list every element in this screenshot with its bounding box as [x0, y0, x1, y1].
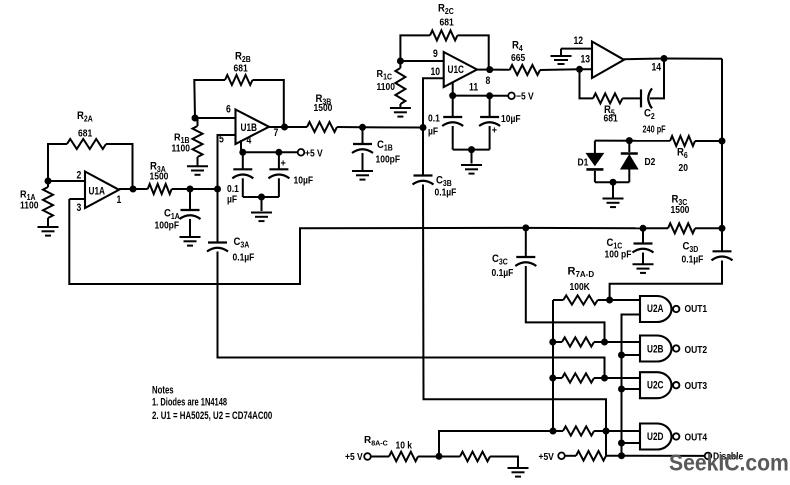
op-amp U1C	[444, 52, 477, 87]
node C1C tap	[640, 225, 647, 232]
label 10uF (U1C cap)	[501, 113, 521, 124]
NAND gate U2C	[640, 372, 679, 398]
wire U1D pin 12	[561, 48, 592, 50]
wire D1 anode stem	[594, 141, 596, 154]
watermark SeekIC.com	[669, 450, 789, 476]
label C1C	[607, 237, 623, 250]
net A: to R3C	[643, 227, 668, 229]
wire C1B to ground	[362, 153, 364, 170]
label R2A	[77, 110, 93, 123]
node 10uF top (U1C)	[486, 92, 493, 99]
net B: C3A to row3	[218, 252, 605, 379]
wire enable to Disable terminal	[622, 455, 705, 457]
wire output to R4	[490, 69, 510, 71]
node U1A pin2 junction	[45, 178, 52, 185]
svg-text:10µF: 10µF	[501, 113, 521, 124]
label R5	[604, 104, 615, 117]
wire U1C pin 11 stem	[452, 83, 454, 96]
op-amp U1A	[85, 172, 119, 209]
svg-text:D1: D1	[578, 157, 589, 168]
label R2C	[438, 3, 454, 16]
U1D pin 12 number	[574, 35, 584, 47]
wire -5V rail	[453, 95, 509, 97]
svg-text:U2C: U2C	[647, 380, 664, 392]
value 1500 (R3C)	[671, 204, 690, 215]
svg-text:1. Diodes are 1N4148: 1. Diodes are 1N4148	[152, 396, 227, 408]
label R4	[512, 40, 524, 53]
label +5 V (bottom left)	[345, 451, 363, 462]
wire C1A to ground	[189, 219, 191, 236]
wire R2A to U1A output	[106, 144, 133, 189]
resistor R1A	[43, 187, 53, 218]
value 100pF (C1B)	[376, 154, 401, 165]
svg-text:0.1µF: 0.1µF	[233, 252, 255, 263]
node row1 right (U2A in1)	[606, 297, 613, 304]
node enable junction	[618, 452, 625, 459]
svg-text:OUT3: OUT3	[685, 380, 708, 391]
svg-text:1500: 1500	[671, 204, 690, 215]
value 1100 (R1C)	[377, 81, 395, 92]
label C3B	[436, 175, 452, 188]
terminal Disable	[705, 453, 712, 460]
wire R4 to U1D pin 13	[540, 68, 592, 71]
wire bypass ground rail	[243, 196, 279, 198]
ground R1C	[390, 108, 411, 117]
svg-text:8: 8	[486, 75, 491, 87]
wire node to U1A pin 2	[48, 180, 85, 182]
value 0.1uF (C3A)	[233, 252, 255, 263]
wire 10uF bottom (U1C)	[489, 126, 491, 150]
label C3A	[234, 236, 250, 249]
svg-text:0.1: 0.1	[227, 183, 239, 194]
op-amp U1B	[236, 110, 270, 145]
node bypass ground (U1C)	[468, 146, 475, 153]
svg-text:100K: 100K	[570, 281, 591, 292]
wire R1A bottom lead	[47, 218, 49, 226]
wire U2A in1 stub	[610, 299, 640, 301]
node U1B output	[281, 124, 288, 131]
capacitor 0.1uF (U1C)	[442, 117, 463, 126]
svg-text:µF: µF	[428, 126, 438, 137]
ground C1C	[633, 264, 654, 273]
wire U2B in1 stub	[605, 341, 641, 343]
NAND gate U2A	[640, 296, 679, 322]
svg-text:100pF: 100pF	[155, 220, 180, 231]
wire row4 to bottom rail	[605, 431, 607, 456]
label OUT1	[685, 304, 708, 315]
wire U2D in2 stub	[622, 442, 641, 444]
svg-text:+: +	[492, 125, 498, 137]
terminal +5V bottom middle	[558, 453, 565, 460]
svg-text:11: 11	[469, 82, 479, 94]
wire diode bottom rail	[595, 181, 629, 183]
label plus (10uF U1B)	[281, 158, 287, 170]
label R8A-C	[364, 435, 389, 448]
svg-text:4: 4	[247, 135, 252, 147]
U1B pin 7 number	[274, 127, 279, 139]
ground C1A	[180, 237, 201, 246]
wire U2C in2 stub	[622, 388, 641, 390]
svg-text:Notes: Notes	[152, 383, 174, 396]
net A: to C1C tap	[526, 227, 643, 229]
capacitor C1C	[633, 244, 654, 253]
wire R2B feedback loop	[194, 80, 225, 118]
capacitor 10uF (U1B)	[268, 169, 289, 178]
svg-text:0.1µF: 0.1µF	[435, 187, 457, 198]
svg-text:240 pF: 240 pF	[643, 123, 667, 134]
U1B pin 6 number	[226, 103, 231, 115]
capacitor 0.1uF (U1B)	[232, 169, 253, 178]
svg-text:12: 12	[574, 35, 584, 47]
value 665 (R4)	[511, 52, 525, 63]
node U1A output	[130, 186, 137, 193]
svg-text:U1A: U1A	[89, 185, 106, 197]
wire bypass ground rail (U1C)	[453, 149, 490, 151]
diode D2	[621, 154, 638, 170]
capacitor C1B	[352, 144, 373, 153]
node U1C pin9 junction	[397, 58, 404, 65]
resistor R7C	[562, 373, 594, 382]
svg-text:10 k: 10 k	[396, 440, 413, 451]
wire R7D left lead	[553, 430, 563, 432]
resistor R2C	[430, 30, 457, 40]
svg-text:+: +	[281, 158, 287, 170]
resistor R3C	[668, 223, 695, 233]
wire R1B top lead	[195, 118, 198, 126]
wire U1A output to node	[119, 188, 133, 190]
wire bypass rail to +5V	[243, 151, 298, 153]
label R1C	[377, 68, 393, 81]
node pin11 junction	[449, 92, 456, 99]
net A: R3C to right vertical	[695, 227, 722, 229]
wire U2C in1 stub	[605, 377, 641, 379]
NAND gate U2D	[640, 424, 679, 450]
label R1A	[20, 189, 36, 202]
ground C1B	[352, 171, 373, 180]
label C3D	[683, 241, 699, 254]
value 681 (R2B)	[234, 63, 248, 74]
wire R1C top lead	[399, 61, 401, 68]
svg-text:D2: D2	[645, 156, 656, 167]
net C: C3B stem	[422, 128, 424, 176]
wire R2A feedback loop	[48, 144, 67, 181]
label -5 V	[516, 91, 534, 102]
node row3 left	[549, 375, 556, 382]
svg-text:U2A: U2A	[647, 303, 664, 315]
node U2B in2 tap	[618, 352, 625, 359]
ground U1C bypass	[461, 165, 482, 174]
capacitor 10uF (U1C)	[479, 117, 500, 126]
ground U1B bypass	[251, 213, 272, 222]
svg-text:665: 665	[511, 52, 525, 63]
ground bias resistor	[508, 468, 529, 477]
wire R1C bottom lead	[399, 104, 401, 107]
label OUT3	[685, 380, 708, 391]
wire R1B bottom lead	[197, 157, 199, 166]
wire R3A to C1A node	[172, 188, 190, 190]
wire R2C to U1C output	[457, 35, 488, 69]
svg-text:1500: 1500	[314, 102, 333, 113]
svg-text:0.1µF: 0.1µF	[492, 267, 514, 278]
terminal +5V (U1B)	[298, 149, 305, 156]
wire vertical R6 to R3C	[721, 141, 723, 228]
resistor R7A	[563, 295, 597, 304]
node U2D in2 tap	[618, 440, 625, 447]
value 100K (R7)	[570, 281, 591, 292]
svg-text:10: 10	[431, 66, 441, 78]
wire bias resistor to ground	[490, 457, 518, 468]
value 1100 (R1B)	[172, 143, 190, 154]
wire R7B left lead	[553, 341, 562, 343]
capacitor C2	[641, 88, 652, 108]
label R3C	[672, 194, 688, 207]
svg-text:OUT2: OUT2	[685, 344, 708, 355]
capacitor C3C	[515, 257, 536, 266]
resistor R2B	[225, 75, 253, 85]
node pin4 bypass junction	[239, 149, 246, 156]
svg-text:100pF: 100pF	[376, 154, 401, 165]
label OUT2	[685, 344, 708, 355]
wire +5V to R8 enable	[565, 455, 576, 457]
node R6 right	[719, 138, 726, 145]
U1C pin 11 number	[469, 82, 479, 94]
node row2 right (U2B in1)	[601, 339, 608, 346]
wire diode gnd stem	[612, 182, 614, 197]
svg-text:100 pF: 100 pF	[605, 249, 632, 260]
U1D pin 14 number	[652, 62, 662, 74]
wire 0.1uF stem	[242, 152, 244, 169]
wire node to bias resistor	[439, 456, 460, 458]
svg-text:1: 1	[117, 194, 122, 206]
wire U1B output to node	[269, 126, 285, 128]
capacitor C3D	[712, 251, 733, 260]
diode D1	[586, 153, 603, 169]
U1A pin 1 number	[117, 194, 122, 206]
svg-text:2. U1 = HA5025, U2 = CD74AC00: 2. U1 = HA5025, U2 = CD74AC00	[152, 410, 272, 423]
value 1100 (R1A)	[20, 200, 38, 211]
svg-text:681: 681	[604, 113, 618, 124]
wire U1A pin 3	[69, 198, 85, 200]
wire D1 cathode stem	[594, 171, 596, 182]
wire enable column	[622, 315, 641, 456]
node row3 right (U2C in1)	[601, 375, 608, 382]
wire diode rail	[595, 140, 670, 142]
wire R8A-C to node	[418, 456, 439, 458]
node C1A tap	[187, 186, 194, 193]
label R2B	[235, 51, 251, 64]
wire R7C right lead	[594, 377, 605, 379]
label uF (U1C cap)	[428, 126, 438, 137]
svg-text:U1C: U1C	[448, 64, 465, 76]
svg-text:3: 3	[77, 202, 82, 214]
label R3B	[316, 93, 332, 106]
ground R1A	[38, 227, 59, 236]
note line 2	[152, 410, 272, 423]
svg-text:2: 2	[77, 169, 82, 181]
node D2 top	[626, 137, 633, 144]
wire D2 cathode stem	[628, 141, 630, 152]
label R3A	[150, 161, 166, 174]
svg-text:681: 681	[234, 63, 248, 74]
wire pin12 gnd stem	[560, 49, 562, 55]
label OUT4	[685, 432, 708, 443]
net C: C3B to row4	[423, 185, 606, 432]
label C1A	[164, 208, 180, 221]
label C3C	[492, 253, 508, 266]
wire U1C pin 10	[423, 78, 444, 127]
resistor R5	[593, 93, 622, 103]
net A: U1A pin3 loop	[69, 199, 526, 284]
U1B pin 5 number	[219, 134, 224, 146]
U1D pin 13 number	[581, 54, 591, 66]
capacitor C1A	[180, 210, 201, 219]
wire output right vertical	[721, 59, 723, 141]
resistor R7B	[562, 337, 594, 346]
svg-text:SeekIC.com: SeekIC.com	[669, 450, 789, 476]
wire R7A right lead	[598, 299, 610, 301]
label plus (10uF U1C)	[492, 125, 498, 137]
wire bypass gnd stem (U1C)	[471, 150, 473, 164]
wire 0.1uF bottom	[242, 178, 244, 197]
svg-text:7: 7	[274, 127, 279, 139]
net D: C3C stem	[525, 228, 527, 257]
label C2	[644, 108, 655, 121]
wire 10uF bottom	[278, 178, 280, 197]
NAND gate U2B	[640, 336, 679, 362]
label uF (U1B cap)	[227, 194, 237, 205]
label R7A-D	[568, 266, 595, 280]
svg-text:0.1µF: 0.1µF	[682, 254, 704, 265]
svg-text:U2D: U2D	[647, 431, 664, 443]
U1C pin 10 number	[431, 66, 441, 78]
op-amp U1D	[592, 42, 624, 79]
label R6	[677, 147, 688, 160]
ground R1B	[187, 166, 208, 175]
value 10 k (R8A-C)	[396, 440, 413, 451]
svg-text:14: 14	[652, 62, 662, 74]
label Disable	[713, 451, 743, 462]
wire U2B in2 stub	[622, 354, 641, 356]
wire C3D to corner	[610, 261, 722, 301]
svg-text:µF: µF	[227, 194, 237, 205]
svg-text:1100: 1100	[377, 81, 395, 92]
wire +5V to R8A-C	[371, 456, 389, 458]
wire R7C left lead	[553, 377, 562, 379]
svg-text:+5 V: +5 V	[305, 148, 323, 159]
wire U1D output	[624, 58, 722, 61]
U1C pin 8 number	[486, 75, 491, 87]
wire R3B to C1B node	[337, 126, 363, 128]
resistor R8 enable	[576, 451, 606, 461]
svg-text:−5 V: −5 V	[516, 91, 534, 102]
wire output to R3B	[285, 126, 308, 128]
resistor R7D	[563, 426, 594, 435]
wire R5 to C2	[622, 97, 641, 99]
label D2	[645, 156, 656, 167]
wire node to U1B pin 6	[195, 117, 236, 119]
svg-text:6: 6	[226, 103, 231, 115]
svg-text:13: 13	[581, 54, 591, 66]
node diode ground	[610, 179, 617, 186]
svg-text:1100: 1100	[172, 143, 190, 154]
wire C2 to output	[650, 59, 664, 99]
value 681 (R2C)	[440, 17, 454, 28]
label 10uF (U1B cap)	[294, 175, 314, 186]
resistor R6	[670, 136, 695, 146]
value 0.1uF (C3D)	[682, 254, 704, 265]
node row2 left	[549, 339, 556, 346]
note line 1	[152, 396, 227, 408]
value 240 pF (C2)	[643, 123, 667, 134]
wire 10uF stem	[278, 152, 280, 169]
wire R2C feedback loop	[400, 35, 430, 61]
label C1B	[377, 139, 393, 152]
U1B pin 4 number	[247, 135, 252, 147]
node 10uF top	[275, 149, 282, 156]
value 0.1uF (C3B)	[435, 187, 457, 198]
node U1C output	[486, 66, 493, 73]
wire U1B pin 5	[218, 135, 236, 189]
node row4 left	[550, 428, 557, 435]
label 0.1 (U1B cap)	[227, 183, 239, 194]
svg-text:1500: 1500	[150, 171, 169, 182]
svg-text:20: 20	[679, 162, 688, 173]
resistor R8A-C	[389, 452, 418, 462]
terminal -5V	[508, 93, 515, 100]
node C1B tap	[359, 124, 366, 131]
wire R2B to U1B output	[253, 80, 284, 127]
svg-text:681: 681	[440, 17, 454, 28]
wire R3C node to C3D	[721, 228, 723, 251]
svg-text:+5 V: +5 V	[345, 451, 363, 462]
wire R1A to ground	[47, 181, 49, 187]
wire 0.1uF stem (U1C)	[452, 96, 454, 117]
ground U1D pin 12	[551, 56, 572, 64]
wire U2D in1 stub	[606, 430, 640, 432]
wire U1B pin 4 stem	[240, 140, 242, 152]
wire bias node up to row4	[439, 431, 553, 456]
value 20 (R6)	[679, 162, 688, 173]
node C2 feedback tap	[661, 55, 668, 62]
svg-text:10µF: 10µF	[294, 175, 314, 186]
node pin10/C3B junction	[420, 124, 427, 131]
label +5V (bottom middle)	[539, 451, 555, 462]
node row4 right (U2D in1)	[603, 428, 610, 435]
svg-text:OUT4: OUT4	[685, 432, 708, 443]
svg-text:+5V: +5V	[539, 451, 555, 462]
svg-text:681: 681	[78, 128, 92, 139]
svg-text:OUT1: OUT1	[685, 304, 708, 315]
net B: C3A stem	[217, 189, 219, 243]
value 681 (R2A)	[78, 128, 92, 139]
node U1D pin13 junction	[576, 66, 583, 73]
U1C pin 9 number	[433, 48, 438, 60]
wire R6 to vertical	[695, 140, 722, 142]
resistor R4	[510, 65, 540, 75]
wire main to pin5 node	[190, 188, 218, 190]
wire D2 anode stem	[628, 169, 630, 182]
node C3C tap	[522, 224, 529, 231]
wire C1C stem	[642, 228, 644, 243]
value 1500 (R3B)	[314, 102, 333, 113]
label +5 V (U1B)	[305, 148, 323, 159]
value 681 (R5)	[604, 113, 618, 124]
wire R7 left column	[552, 300, 554, 431]
resistor R3B	[307, 122, 337, 132]
capacitor C3B	[413, 176, 434, 185]
resistor R1B	[193, 126, 203, 157]
wire C1B stem	[362, 127, 364, 144]
